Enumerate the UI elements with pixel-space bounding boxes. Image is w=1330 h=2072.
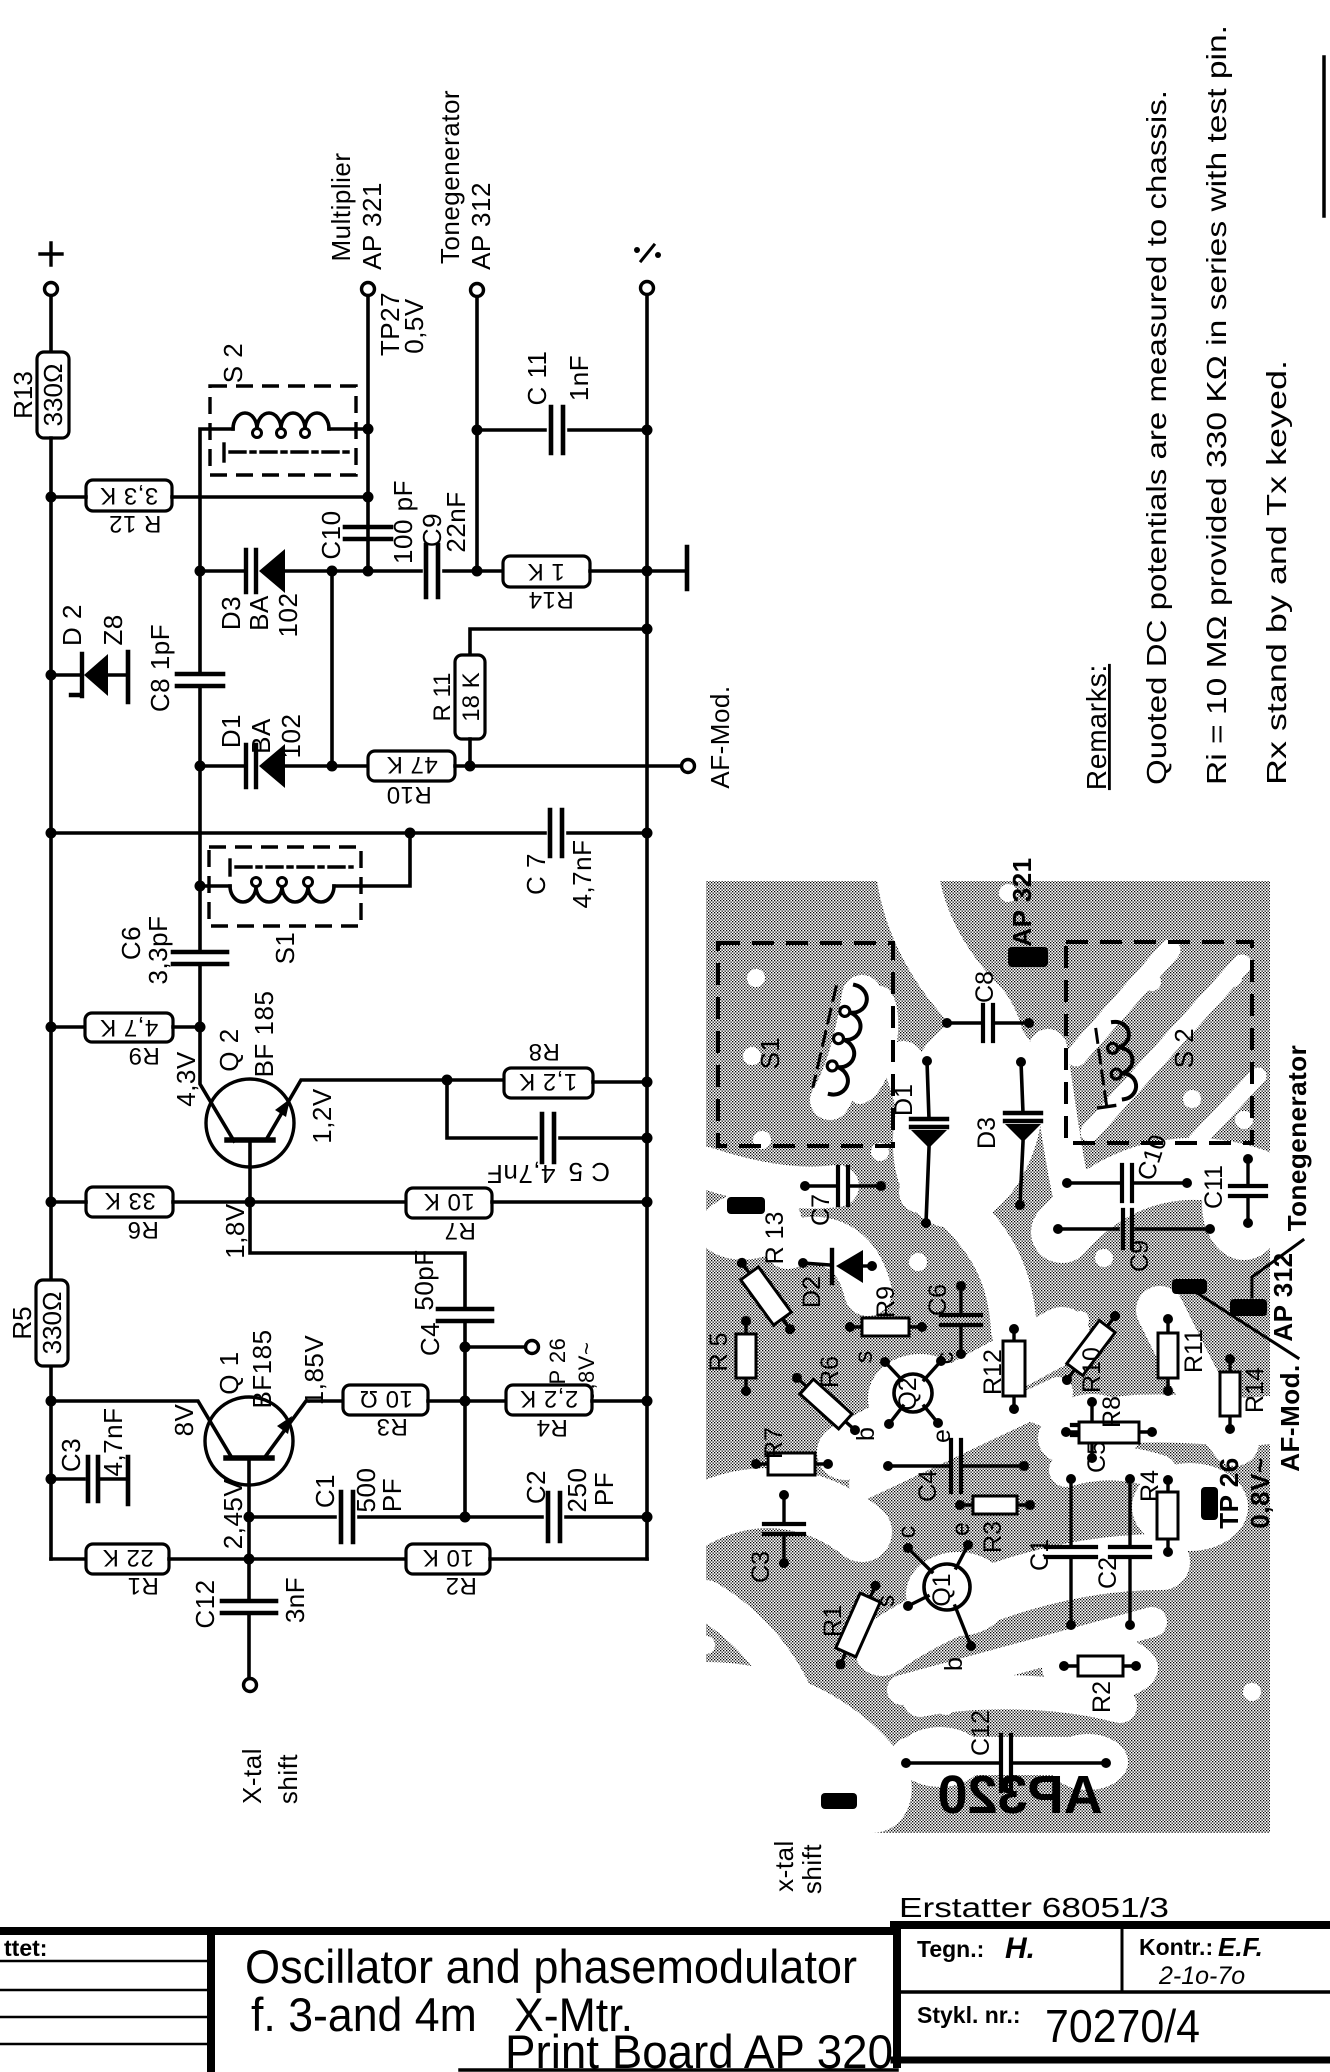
label Kontr xyxy=(1139,1932,1263,1990)
junction C7 rail xyxy=(642,828,653,839)
svg-text:Q 1: Q 1 xyxy=(214,1351,244,1394)
svg-text:250: 250 xyxy=(562,1468,592,1513)
capacitor C8 xyxy=(177,674,223,686)
wire rail to C3 xyxy=(51,1477,84,1481)
svg-text:C12: C12 xyxy=(190,1579,220,1628)
remarks heading xyxy=(1081,664,1112,790)
label C2 xyxy=(521,1470,551,1504)
PCB resistor R1 xyxy=(819,1577,888,1674)
label Q2 BF 185 xyxy=(249,991,279,1078)
coil S1 xyxy=(230,878,334,903)
label 4,7nF xyxy=(567,840,597,909)
wire R6 to base xyxy=(173,1200,250,1204)
junction rail R12 xyxy=(46,492,57,503)
svg-text:R12: R12 xyxy=(979,1349,1007,1395)
svg-text:Remarks:: Remarks: xyxy=(1081,664,1112,790)
wire rail to R9 xyxy=(51,1025,85,1029)
capacitor C2 xyxy=(548,1493,560,1541)
resistor R10 xyxy=(368,751,455,808)
svg-text:4,7nF: 4,7nF xyxy=(98,1408,128,1477)
label 4,3V xyxy=(171,1051,201,1107)
label C3 xyxy=(56,1438,86,1472)
capacitor C11 xyxy=(551,407,563,453)
resistor R13 xyxy=(8,352,69,438)
PCB resistor R8 xyxy=(1061,1396,1157,1443)
svg-text:R 11: R 11 xyxy=(429,673,456,722)
wire C3 to ground xyxy=(99,1477,126,1481)
wire Q1 emitter xyxy=(265,1401,343,1457)
svg-text:2-1o-7o: 2-1o-7o xyxy=(1158,1962,1245,1990)
resistor R3 xyxy=(343,1385,428,1440)
wire Q1 collector xyxy=(51,1401,232,1458)
PCB diode D2 xyxy=(798,1250,877,1308)
label Multiplier xyxy=(326,152,356,261)
wire D3 line xyxy=(200,569,246,573)
svg-text:Tonegenerator: Tonegenerator xyxy=(435,90,465,264)
PCB capacitor C1 xyxy=(1026,1474,1096,1630)
junction Q1 base C1 xyxy=(244,1512,255,1523)
wire C1 to C4 node xyxy=(359,1515,542,1519)
label AP 321 xyxy=(357,182,387,270)
svg-text:C2: C2 xyxy=(1094,1557,1122,1589)
resistor R14 xyxy=(503,556,590,613)
terminal Tonegenerator AP312 xyxy=(471,284,484,297)
wire base to R7 xyxy=(250,1200,406,1204)
transistor Q2 xyxy=(206,1079,294,1167)
label D3 xyxy=(216,596,246,630)
junction rail R6 xyxy=(46,1197,57,1208)
chassis ground at C3 xyxy=(126,1457,131,1504)
PCB resistor R12 xyxy=(979,1324,1025,1414)
wire D3 to junction xyxy=(285,569,332,573)
wire R14 to rail xyxy=(590,569,647,573)
svg-text:C10: C10 xyxy=(316,510,346,559)
label D3 102 xyxy=(273,593,303,638)
PCB pad x-tal xyxy=(821,1793,857,1809)
svg-text:x-tal: x-tal xyxy=(769,1840,799,1892)
label AP 312 xyxy=(466,182,496,270)
resistor R 11 xyxy=(429,655,485,739)
coil S2 shield box xyxy=(210,386,356,475)
wire Q2 base down xyxy=(248,1140,252,1202)
PCB label TP 26 xyxy=(1214,1457,1244,1528)
svg-text:X-tal: X-tal xyxy=(237,1748,267,1804)
wire C7 line left xyxy=(51,831,545,835)
PCB resistor R9 xyxy=(845,1286,927,1336)
svg-text:R8: R8 xyxy=(1098,1396,1126,1428)
chassis ground at D2 xyxy=(126,652,131,702)
transistor Q1 xyxy=(205,1397,293,1485)
PCB resistor R11 xyxy=(1158,1314,1208,1396)
svg-text:70270/4: 70270/4 xyxy=(1045,2000,1200,2052)
svg-text:C6: C6 xyxy=(924,1284,952,1316)
wire tonegen node to R14 xyxy=(477,569,503,573)
svg-text:Multiplier: Multiplier xyxy=(326,152,356,261)
capacitor C4 xyxy=(438,1309,492,1321)
junction C10 bottom xyxy=(363,566,374,577)
terminal ground xyxy=(641,282,654,295)
junction R8 rail xyxy=(642,1077,653,1088)
wire R8 to rail xyxy=(593,1080,647,1084)
junction R14 rail xyxy=(642,566,653,577)
svg-text:AF-Mod.: AF-Mod. xyxy=(705,685,735,788)
svg-text:AP 312: AP 312 xyxy=(466,182,496,270)
junction S1 link C7 line xyxy=(405,828,416,839)
label 1,2V xyxy=(307,1088,337,1144)
svg-text:R6: R6 xyxy=(127,1216,159,1243)
plus supply symbol xyxy=(40,243,62,265)
resistor R2 xyxy=(406,1544,490,1599)
wire R10 to AF-Mod xyxy=(455,764,681,768)
svg-text:ttet:: ttet: xyxy=(4,1935,47,1961)
label D1 BA xyxy=(246,718,276,754)
PCB mirrored AP320 marking xyxy=(937,1765,1102,1825)
wire S2 left to vertical xyxy=(200,429,233,571)
svg-text:S1: S1 xyxy=(755,1037,785,1070)
label 2,45V xyxy=(218,1479,248,1550)
PCB print board gray area xyxy=(706,881,1270,1833)
svg-text:4,7nF: 4,7nF xyxy=(567,840,597,909)
terminal X-tal shift xyxy=(244,1679,257,1692)
wire R9 to Q2 collector node xyxy=(173,1025,200,1029)
junction S2 right xyxy=(363,424,374,435)
svg-text:Oscillator and phasemodulato: Oscillator and phasemodulator xyxy=(245,1940,857,1993)
label 22nF xyxy=(441,491,471,552)
wire C8 down to D1 line xyxy=(198,686,202,886)
svg-text:D3: D3 xyxy=(973,1117,1001,1149)
svg-text:3nF: 3nF xyxy=(280,1577,310,1623)
svg-text:AP320: AP320 xyxy=(937,1765,1102,1825)
PCB diode D1 xyxy=(890,1056,947,1228)
svg-text:AP 321: AP 321 xyxy=(1007,857,1037,946)
resistor R6 xyxy=(86,1187,173,1243)
PCB transistor Q1 xyxy=(872,1522,976,1671)
svg-text:R9: R9 xyxy=(872,1286,900,1318)
svg-text:S 2: S 2 xyxy=(218,343,248,384)
capacitor C3 xyxy=(88,1457,98,1501)
label 3,3pF xyxy=(143,916,173,985)
pointer line AF-Mod xyxy=(1194,1291,1298,1358)
svg-text:BA: BA xyxy=(246,718,276,754)
capacitor C5 xyxy=(542,1114,554,1162)
wire base to C1 xyxy=(249,1515,335,1519)
wire R7 to rail xyxy=(492,1200,647,1204)
svg-text:330Ω: 330Ω xyxy=(38,364,68,427)
svg-text:Quoted DC potentials are m: Quoted DC potentials are measured to cha… xyxy=(1141,90,1172,785)
junction R3 R4 C4 xyxy=(460,1396,471,1407)
wire C4 node down to R3 line xyxy=(463,1347,467,1517)
svg-text:Print Board AP 320: Print Board AP 320 xyxy=(505,2025,893,2072)
svg-text:TP 26: TP 26 xyxy=(1214,1457,1244,1528)
svg-text:R7: R7 xyxy=(760,1427,788,1459)
wire C11 to rail xyxy=(569,428,647,432)
svg-text:1,2V: 1,2V xyxy=(307,1088,337,1144)
label X-tal xyxy=(237,1748,267,1804)
wire rail corner to R1 xyxy=(51,1557,86,1561)
svg-text:2,2 K: 2,2 K xyxy=(520,1385,579,1412)
svg-text:D1: D1 xyxy=(890,1084,918,1116)
svg-text:C8: C8 xyxy=(971,971,999,1003)
PCB label shift xyxy=(797,1844,827,1894)
label C3 4,7nF xyxy=(98,1408,128,1477)
label C10 xyxy=(316,510,346,559)
svg-text:Stykl. nr.:: Stykl. nr.: xyxy=(917,2002,1021,2028)
svg-text:330Ω: 330Ω xyxy=(37,1292,67,1355)
capacitor C6 xyxy=(173,952,227,964)
pointer line Tonegenerator xyxy=(1252,1240,1303,1297)
svg-text:Tonegenerator: Tonegenerator xyxy=(1282,1045,1312,1232)
label Q 1 xyxy=(214,1351,244,1394)
svg-text:R8: R8 xyxy=(528,1038,560,1065)
label 250 xyxy=(562,1468,592,1513)
svg-text:D2: D2 xyxy=(798,1276,826,1308)
junction emitter C5 drop xyxy=(442,1075,453,1086)
terminal + supply xyxy=(45,283,58,296)
svg-text:C8 1pF: C8 1pF xyxy=(145,624,175,712)
PCB capacitor C3 xyxy=(747,1490,804,1583)
PCB label Tonegenerator xyxy=(1282,1045,1312,1232)
Q1 emitter arrow xyxy=(277,1416,292,1434)
svg-text:1nF: 1nF xyxy=(564,355,594,401)
wire R4 to rail xyxy=(592,1399,647,1403)
wire D3 node to TP27 node xyxy=(332,569,368,573)
svg-text:R 12: R 12 xyxy=(109,510,162,537)
svg-text:Q 2: Q 2 xyxy=(214,1028,244,1071)
junction R4 rail xyxy=(642,1396,653,1407)
coil S1 core xyxy=(230,860,352,875)
PCB transistor Q2 xyxy=(850,1351,959,1443)
junction rail R11 xyxy=(642,624,653,635)
label C1 xyxy=(310,1474,340,1508)
wire D1 line xyxy=(200,764,246,768)
svg-text:C5: C5 xyxy=(1083,1441,1111,1473)
svg-text:R6: R6 xyxy=(816,1356,844,1388)
svg-text:C 7: C 7 xyxy=(521,853,551,895)
wire C4 down xyxy=(463,1321,467,1347)
label 0,5V xyxy=(399,298,429,354)
wire R12 to TP27 line xyxy=(172,495,368,499)
PCB resistor R6 xyxy=(787,1356,866,1441)
svg-text:22nF: 22nF xyxy=(441,491,471,552)
wire C12 to terminal xyxy=(247,1613,251,1678)
svg-text:R1: R1 xyxy=(127,1572,159,1599)
junction tonegen C11 xyxy=(472,425,483,436)
chassis ground right of R14 xyxy=(685,547,690,589)
svg-text:1,8V: 1,8V xyxy=(220,1203,250,1259)
wire tonegen to C11 xyxy=(477,428,545,432)
label C11 xyxy=(522,351,552,406)
PCB resistor R2 xyxy=(1059,1656,1141,1713)
svg-text:C12: C12 xyxy=(967,1710,995,1756)
svg-text:1,85V: 1,85V xyxy=(299,1335,329,1406)
wire S1 right up to C7 line xyxy=(334,833,410,886)
wire emitter to R8 xyxy=(447,1078,504,1082)
label C8 1pF xyxy=(145,624,175,712)
PCB label 0,8V xyxy=(1245,1457,1275,1528)
junction C5 rail xyxy=(642,1133,653,1144)
wire right rail xyxy=(645,295,649,1559)
terminal TP27 Multiplier AP321 xyxy=(362,283,375,296)
wire S1 left stub xyxy=(200,884,230,888)
label C2 PF xyxy=(589,1472,619,1506)
wire D3 node down to C8 xyxy=(198,571,202,674)
label D1 102 xyxy=(276,714,306,759)
resistor R7 xyxy=(406,1188,492,1244)
svg-text:8V: 8V xyxy=(169,1403,199,1436)
PCB label AP 312 xyxy=(1268,1252,1298,1341)
PCB pad AF-Mod xyxy=(1172,1279,1207,1294)
svg-text:D3: D3 xyxy=(216,596,246,630)
svg-text:b: b xyxy=(940,1657,968,1671)
svg-text:C6: C6 xyxy=(116,926,146,960)
remarks line 1 xyxy=(1141,90,1172,785)
resistor R9 xyxy=(85,1013,173,1069)
wire C9 to tonegen line xyxy=(444,569,477,573)
junction rail C3 xyxy=(46,1474,57,1485)
wire to R10 xyxy=(332,764,368,768)
svg-text:R10: R10 xyxy=(386,781,432,808)
coil S1 shield box xyxy=(209,847,361,926)
svg-text:C3: C3 xyxy=(56,1438,86,1472)
PCB label S 2 xyxy=(1169,1028,1199,1069)
svg-text:C1: C1 xyxy=(310,1474,340,1508)
PCB label x-tal xyxy=(769,1840,799,1892)
label PF xyxy=(377,1478,407,1512)
label Z8 xyxy=(98,614,128,645)
svg-text:C4: C4 xyxy=(415,1322,445,1356)
label AF-Mod. xyxy=(705,685,735,788)
PCB capacitor C12 xyxy=(901,1710,1111,1791)
wire rail to R6 xyxy=(51,1200,86,1204)
wire TP26 stub xyxy=(465,1345,525,1349)
svg-text:2,45V: 2,45V xyxy=(218,1479,248,1550)
PCB resistor R10 xyxy=(1056,1306,1126,1393)
label Stykl nr xyxy=(917,2000,1200,2052)
svg-text:R1: R1 xyxy=(819,1605,847,1637)
svg-text:R 13: R 13 xyxy=(761,1212,789,1265)
label S1 xyxy=(270,932,300,965)
wire S2 right to TP27 line xyxy=(329,427,368,431)
junction TP26 stub xyxy=(460,1342,471,1353)
junction rail C7 line xyxy=(46,828,57,839)
remarks line 2 xyxy=(1201,25,1232,785)
svg-text:Tegn.:: Tegn.: xyxy=(917,1936,984,1962)
label C4 xyxy=(415,1322,445,1356)
PCB pad left edge xyxy=(727,1197,765,1214)
svg-text:C1: C1 xyxy=(1026,1539,1054,1571)
svg-text:R14: R14 xyxy=(1241,1367,1269,1413)
PCB pad AP321 xyxy=(1008,947,1048,967)
svg-text:D 2: D 2 xyxy=(57,604,87,646)
svg-text:R13: R13 xyxy=(8,371,38,419)
PCB resistor R3 xyxy=(955,1496,1035,1553)
wire base node to R2 xyxy=(249,1557,406,1561)
PCB capacitor C11 xyxy=(1200,1154,1266,1228)
label D3 BA xyxy=(244,595,274,631)
svg-text:C7: C7 xyxy=(807,1194,835,1226)
junction Q2 base xyxy=(245,1197,256,1208)
svg-text:Ri = 10 MΩ provided 330 KΩ in: Ri = 10 MΩ provided 330 KΩ in series wit… xyxy=(1201,25,1232,785)
wire Tonegenerator vertical xyxy=(475,297,479,571)
resistor R1 xyxy=(86,1544,169,1599)
PCB diode D3 xyxy=(973,1057,1041,1210)
wire R11 bottom xyxy=(468,739,472,766)
wire left rail R13 to R1 corner xyxy=(49,438,53,1559)
svg-text:R4: R4 xyxy=(1136,1470,1164,1502)
junction D3 right xyxy=(327,566,338,577)
resistor R4 xyxy=(506,1385,592,1441)
diode D1 (varicap) xyxy=(246,744,285,788)
junction D3 line left xyxy=(195,566,206,577)
svg-text:R2: R2 xyxy=(1088,1681,1116,1713)
svg-text:H.: H. xyxy=(1005,1932,1035,1965)
svg-text:BF 185: BF 185 xyxy=(249,991,279,1078)
label C5 4,7nF xyxy=(487,1157,610,1189)
svg-text:3,3 K: 3,3 K xyxy=(100,482,159,509)
svg-text:b: b xyxy=(852,1427,880,1441)
resistor R8 xyxy=(504,1038,593,1098)
svg-text:R10: R10 xyxy=(1078,1347,1106,1393)
svg-text:C3: C3 xyxy=(747,1551,775,1583)
svg-text:s: s xyxy=(872,1595,900,1608)
label 1,85V xyxy=(299,1335,329,1406)
PCB capacitor C4 xyxy=(883,1440,1029,1502)
svg-text:4,7nF: 4,7nF xyxy=(487,1159,556,1189)
junction R9 C6 collector xyxy=(195,1022,206,1033)
svg-text:C2: C2 xyxy=(521,1470,551,1504)
wire TP27 vertical xyxy=(366,296,370,571)
wire Q2 emitter xyxy=(266,1080,447,1140)
svg-text:shift: shift xyxy=(797,1844,827,1894)
wire C7 to rail xyxy=(568,831,647,835)
wire D1 to junction xyxy=(285,764,332,768)
junction C11 rail xyxy=(642,425,653,436)
label 500 xyxy=(351,1468,381,1513)
wire ground stub xyxy=(647,569,684,573)
PCB pad AP312 xyxy=(1230,1299,1267,1316)
svg-text:1,2 K: 1,2 K xyxy=(519,1068,578,1095)
terminal AF-Mod xyxy=(682,760,695,773)
svg-text:33 K: 33 K xyxy=(104,1187,155,1214)
label Tonegenerator xyxy=(435,90,465,264)
title text xyxy=(245,1940,893,2072)
remarks line 3 xyxy=(1261,360,1292,785)
PCB capacitor C8 xyxy=(942,971,1034,1041)
label C12 xyxy=(190,1579,220,1628)
PCB resistor R 5 xyxy=(705,1316,756,1396)
svg-text:S1: S1 xyxy=(270,932,300,965)
svg-text:s: s xyxy=(850,1351,878,1364)
label Q1 BF185 xyxy=(247,1329,277,1408)
svg-text:Q2: Q2 xyxy=(894,1377,922,1410)
wire Q2 collector xyxy=(200,1027,234,1141)
svg-text:C11: C11 xyxy=(1200,1165,1228,1209)
PCB capacitor C6 xyxy=(924,1281,981,1359)
svg-text:R 5: R 5 xyxy=(705,1333,733,1372)
svg-text:0,8V~: 0,8V~ xyxy=(1245,1457,1275,1528)
PCB coil S1 xyxy=(812,981,869,1098)
resistor R 12 xyxy=(86,480,172,537)
wire R11 top xyxy=(470,629,647,655)
PCB capacitor C9 xyxy=(1053,1210,1215,1272)
diode D2 zener xyxy=(71,654,126,696)
resistor R5 xyxy=(7,1280,68,1366)
svg-text:Z8: Z8 xyxy=(98,614,128,645)
wire rail to R12 xyxy=(51,495,86,499)
label 1,8V xyxy=(220,1203,250,1259)
capacitor C9 xyxy=(426,545,438,597)
wire base down to C4 xyxy=(250,1202,465,1309)
